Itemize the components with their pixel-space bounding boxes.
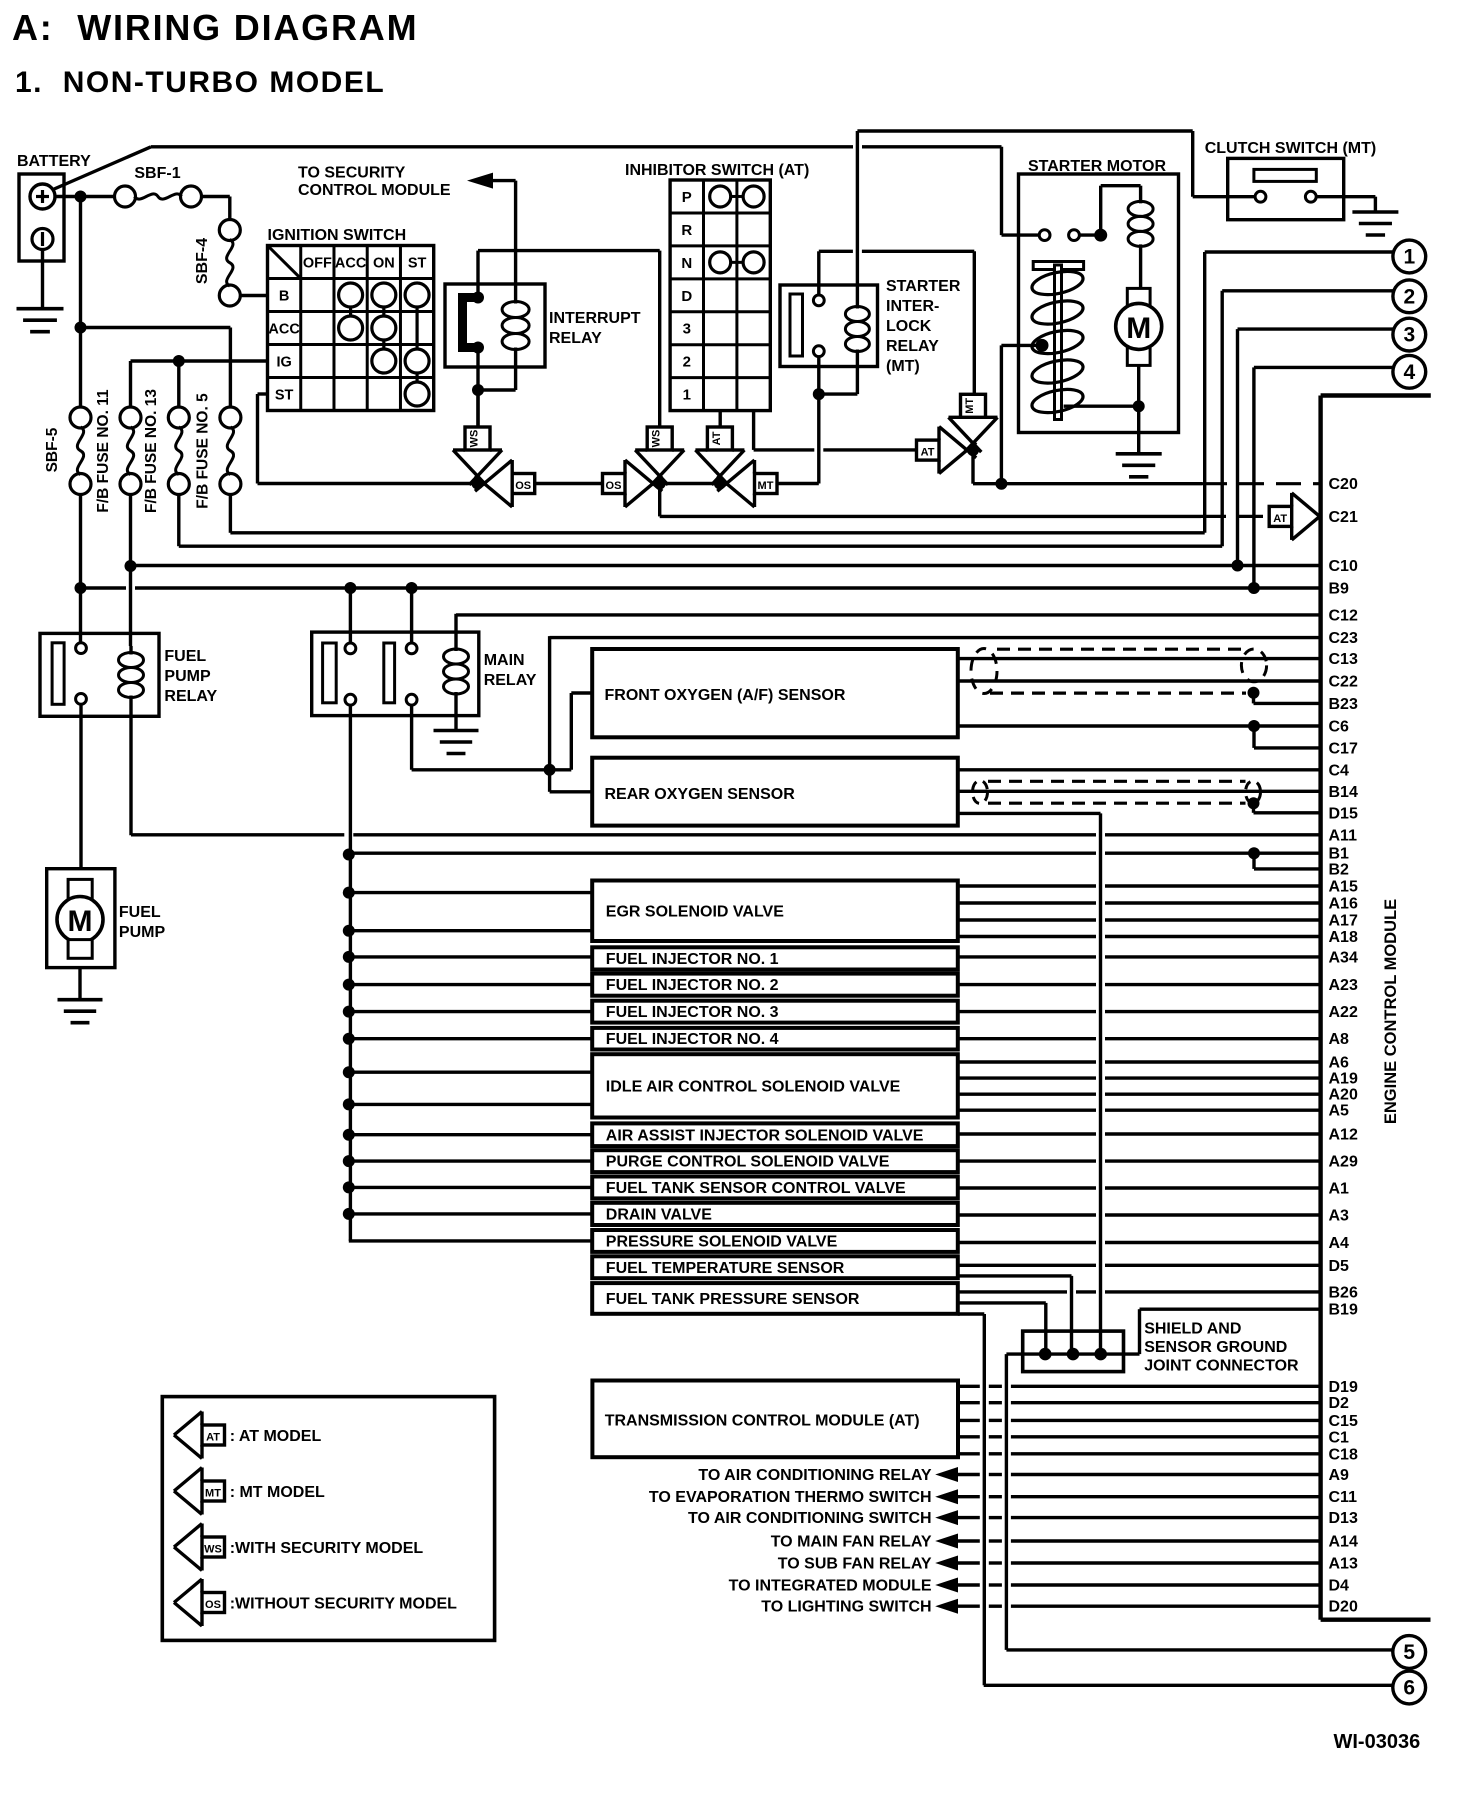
svg-text:INTERRUPT: INTERRUPT bbox=[549, 310, 641, 327]
svg-text:WI-03036: WI-03036 bbox=[1334, 1731, 1421, 1753]
svg-text:JOINT CONNECTOR: JOINT CONNECTOR bbox=[1144, 1358, 1299, 1375]
wire interlock bottoms join bbox=[817, 357, 820, 394]
wire C17 branch bbox=[1252, 726, 1255, 748]
svg-text:RELAY: RELAY bbox=[886, 338, 939, 355]
svg-text:TRANSMISSION CONTROL MODULE (A: TRANSMISSION CONTROL MODULE (AT) bbox=[605, 1413, 920, 1430]
svg-text:A20: A20 bbox=[1329, 1087, 1358, 1104]
wire battery minus to ground bbox=[41, 250, 44, 309]
svg-text:A3: A3 bbox=[1329, 1208, 1350, 1225]
junction J1 bbox=[472, 478, 484, 490]
wire battery down to SBF-5 bbox=[79, 197, 82, 408]
wire C6 bbox=[958, 724, 1321, 727]
fuel injector no.4 box bbox=[592, 1028, 958, 1050]
junction interrupt contact bottom bbox=[472, 342, 484, 354]
wire fuel tank pressure to joint connector bbox=[958, 1301, 1046, 1304]
main relay contact circles bbox=[345, 643, 356, 654]
junction interrupt contact top bbox=[472, 292, 484, 304]
junction plunger bbox=[1036, 339, 1049, 352]
pressure solenoid valve box bbox=[592, 1230, 958, 1252]
wire B2 branch bbox=[1252, 853, 1255, 869]
svg-text:D5: D5 bbox=[1329, 1258, 1350, 1275]
idle air control solenoid valve box bbox=[592, 1054, 958, 1117]
svg-text:6: 6 bbox=[1403, 1677, 1415, 1700]
junction shield drain rear bbox=[1248, 797, 1260, 809]
svg-text:B9: B9 bbox=[1329, 581, 1350, 598]
junction rear heater tap bbox=[544, 764, 556, 776]
shield (rear O2) bbox=[973, 781, 988, 804]
fuse F/B FUSE NO. 11 bbox=[120, 407, 141, 428]
wire WS feed J1 bbox=[476, 390, 479, 427]
wire main relay contact2 run bbox=[410, 705, 413, 770]
svg-text:1: 1 bbox=[1403, 246, 1415, 269]
battery bbox=[19, 174, 64, 261]
svg-text:AT: AT bbox=[206, 1432, 220, 1444]
legend arrow AT bbox=[174, 1412, 202, 1459]
svg-text:D4: D4 bbox=[1329, 1578, 1350, 1595]
fuel temperature sensor box bbox=[592, 1256, 958, 1278]
fuel injector no.2 box bbox=[592, 974, 958, 996]
node circled 2 bbox=[1393, 280, 1426, 313]
starter plunger T-bar bbox=[1033, 262, 1083, 270]
wire main relay coil to C12 bbox=[454, 614, 457, 640]
ground (main relay) bbox=[434, 729, 479, 733]
wire NO.11 to fuel pump relay coil bbox=[129, 495, 132, 647]
svg-text:ENGINE CONTROL MODULE: ENGINE CONTROL MODULE bbox=[1382, 899, 1400, 1124]
svg-text::WITH SECURITY MODEL: :WITH SECURITY MODEL bbox=[230, 1540, 424, 1557]
wire SBF-1 to SBF-4 bbox=[202, 195, 230, 198]
wire clutch to ground bbox=[1316, 195, 1375, 198]
fuel pump motor bbox=[68, 879, 92, 899]
wire main relay contacts up bbox=[349, 588, 352, 643]
wire J4 to C20 corner bbox=[971, 450, 974, 484]
interrupt relay contact bbox=[458, 293, 479, 352]
clutch switch box bbox=[1228, 158, 1344, 219]
svg-text:C15: C15 bbox=[1329, 1413, 1358, 1430]
svg-text:MT: MT bbox=[758, 480, 774, 492]
svg-text:SHIELD AND: SHIELD AND bbox=[1144, 1321, 1241, 1338]
svg-text:PRESSURE SOLENOID VALVE: PRESSURE SOLENOID VALVE bbox=[606, 1233, 838, 1250]
svg-text:CLUTCH SWITCH (MT): CLUTCH SWITCH (MT) bbox=[1205, 140, 1377, 157]
wire fuel temp sensor to joint connector bbox=[958, 1274, 1072, 1277]
wire to circled 5 bbox=[1006, 1648, 1392, 1651]
svg-text:R: R bbox=[681, 222, 692, 239]
wire inhibitor col2 to AT arrow bbox=[719, 411, 722, 428]
fuel pump relay coil bbox=[129, 646, 132, 655]
purge control solenoid valve box bbox=[592, 1150, 958, 1172]
inhibitor switch bbox=[670, 180, 770, 411]
ground (fuel pump) bbox=[58, 998, 103, 1002]
svg-text:D2: D2 bbox=[1329, 1395, 1350, 1412]
svg-text:A12: A12 bbox=[1329, 1127, 1358, 1144]
svg-text:: MT MODEL: : MT MODEL bbox=[230, 1484, 325, 1501]
svg-text:C1: C1 bbox=[1329, 1429, 1350, 1446]
junction battery plus node bbox=[75, 191, 87, 203]
wire bus circled2 (fuse NO.13) bbox=[177, 495, 180, 547]
svg-text:AT: AT bbox=[1273, 513, 1287, 525]
svg-text:OS: OS bbox=[515, 480, 531, 492]
wire C22 bbox=[958, 679, 1321, 682]
svg-text:DRAIN VALVE: DRAIN VALVE bbox=[606, 1206, 712, 1223]
wire rear shield drain bbox=[958, 812, 1101, 815]
svg-text:CONTROL MODULE: CONTROL MODULE bbox=[298, 182, 451, 199]
fuse F/B FUSE NO. 13 bbox=[168, 407, 189, 428]
wire rear heater feed bbox=[548, 770, 551, 792]
svg-text:C13: C13 bbox=[1329, 651, 1358, 668]
svg-text:B2: B2 bbox=[1329, 861, 1350, 878]
fuse SBF-4 bbox=[219, 220, 240, 241]
svg-text:FUEL INJECTOR NO. 4: FUEL INJECTOR NO. 4 bbox=[606, 1031, 779, 1048]
wire C23 to main relay circuit bbox=[550, 636, 1321, 639]
wire plunger bottom to motor bbox=[1064, 405, 1139, 408]
svg-text:2: 2 bbox=[683, 354, 691, 371]
svg-text:A4: A4 bbox=[1329, 1235, 1350, 1252]
wire ST bus y483 bbox=[258, 482, 819, 485]
svg-text::WITHOUT SECURITY MODEL: :WITHOUT SECURITY MODEL bbox=[230, 1596, 457, 1613]
svg-text:M: M bbox=[68, 905, 93, 938]
legend box bbox=[162, 1397, 494, 1641]
svg-text:WS: WS bbox=[651, 430, 663, 448]
svg-text:PURGE CONTROL SOLENOID VALVE: PURGE CONTROL SOLENOID VALVE bbox=[606, 1154, 890, 1171]
wire interrupt contact top bbox=[476, 251, 479, 298]
svg-text:OS: OS bbox=[205, 1599, 221, 1611]
starter interlock relay box bbox=[780, 285, 878, 367]
wire motor to ground junction bbox=[1137, 365, 1140, 432]
rear oxygen sensor box bbox=[592, 758, 958, 826]
arrow AT (J4) bbox=[939, 427, 967, 474]
fuse F/B FUSE NO. 5 bbox=[220, 407, 241, 428]
svg-text:OFF: OFF bbox=[303, 256, 332, 272]
air assist injector solenoid valve box bbox=[592, 1123, 958, 1146]
svg-text:FUEL: FUEL bbox=[119, 904, 161, 921]
interrupt relay box bbox=[445, 284, 545, 367]
svg-text:C22: C22 bbox=[1329, 674, 1358, 691]
wire bus B9 (SBF-5) bbox=[81, 586, 127, 589]
svg-text:C4: C4 bbox=[1329, 762, 1350, 779]
svg-text:D: D bbox=[681, 288, 692, 305]
svg-text:STARTER MOTOR: STARTER MOTOR bbox=[1028, 158, 1167, 175]
svg-text:LOCK: LOCK bbox=[886, 318, 932, 335]
svg-text:RELAY: RELAY bbox=[164, 688, 217, 705]
svg-text:AIR ASSIST INJECTOR SOLENOID V: AIR ASSIST INJECTOR SOLENOID VALVE bbox=[606, 1127, 924, 1144]
fuel tank sensor control valve box bbox=[592, 1177, 958, 1199]
svg-text:FUEL TEMPERATURE SENSOR: FUEL TEMPERATURE SENSOR bbox=[606, 1260, 845, 1277]
junction circled4-B9 bbox=[1248, 582, 1260, 594]
svg-text:WS: WS bbox=[469, 430, 481, 448]
junction J6 bbox=[995, 478, 1007, 490]
svg-text:FRONT OXYGEN (A/F) SENSOR: FRONT OXYGEN (A/F) SENSOR bbox=[605, 687, 846, 704]
junction starter motor bottom bbox=[1133, 400, 1145, 412]
wire C13 bbox=[958, 657, 1321, 660]
wire D15 branch bbox=[1252, 803, 1255, 813]
svg-text:(MT): (MT) bbox=[886, 358, 920, 375]
svg-text:RELAY: RELAY bbox=[549, 330, 602, 347]
svg-text:SENSOR GROUND: SENSOR GROUND bbox=[1144, 1339, 1287, 1356]
junction B1 on bus bbox=[343, 849, 355, 861]
svg-text:D13: D13 bbox=[1329, 1510, 1358, 1527]
wire main relay coil to ground bbox=[454, 703, 457, 731]
svg-text:A23: A23 bbox=[1329, 977, 1358, 994]
fuel injector no.3 box bbox=[592, 1001, 958, 1023]
svg-text:C10: C10 bbox=[1329, 558, 1358, 575]
svg-text:RELAY: RELAY bbox=[484, 672, 537, 689]
wire starter solenoid top bbox=[1099, 186, 1102, 235]
svg-text:FUEL TANK SENSOR CONTROL VALVE: FUEL TANK SENSOR CONTROL VALVE bbox=[606, 1180, 906, 1197]
engine control module outline bbox=[1318, 396, 1322, 1620]
wire interlock coil top to battery line bbox=[856, 131, 859, 302]
junction NO.11 bus bbox=[125, 560, 137, 572]
starter contact circles bbox=[1039, 230, 1050, 241]
main relay coil bbox=[454, 640, 457, 651]
starter solenoid coil bbox=[1139, 186, 1142, 204]
ignition switch bbox=[268, 246, 434, 411]
svg-text:A18: A18 bbox=[1329, 929, 1358, 946]
svg-text:SBF-1: SBF-1 bbox=[134, 165, 180, 182]
junction interrupt join bbox=[472, 384, 484, 396]
svg-text:ACC: ACC bbox=[268, 322, 300, 338]
svg-text:A13: A13 bbox=[1329, 1556, 1358, 1573]
svg-text:FUEL INJECTOR NO. 3: FUEL INJECTOR NO. 3 bbox=[606, 1004, 779, 1021]
svg-text:WS: WS bbox=[204, 1544, 222, 1556]
svg-text:REAR OXYGEN SENSOR: REAR OXYGEN SENSOR bbox=[605, 786, 796, 803]
svg-text:A1: A1 bbox=[1329, 1181, 1350, 1198]
arrow OS (J2) bbox=[625, 460, 653, 507]
starter motor M bbox=[1127, 288, 1150, 365]
svg-text:C6: C6 bbox=[1329, 719, 1350, 736]
junction interlock bottom bbox=[813, 388, 825, 400]
svg-text:TO INTEGRATED MODULE: TO INTEGRATED MODULE bbox=[729, 1578, 932, 1595]
svg-text:D15: D15 bbox=[1329, 805, 1358, 822]
svg-text:MAIN: MAIN bbox=[484, 652, 525, 669]
wires TCM to ECM bbox=[958, 1385, 980, 1388]
svg-text:A15: A15 bbox=[1329, 879, 1358, 896]
EGR solenoid valve box bbox=[592, 881, 958, 942]
arrow MT (J4) bbox=[949, 417, 998, 443]
starter motor box bbox=[1019, 174, 1179, 433]
svg-text:ST: ST bbox=[408, 256, 427, 272]
arrow WS (J2) bbox=[635, 450, 684, 476]
arrow WS (J1) bbox=[453, 450, 502, 476]
svg-text:B26: B26 bbox=[1329, 1284, 1358, 1301]
fuel pump relay contact circles bbox=[76, 643, 87, 654]
svg-text:SBF-5: SBF-5 bbox=[44, 427, 61, 472]
wire joint connector to B19 bbox=[1138, 1309, 1141, 1354]
arrow AT (J3) bbox=[695, 450, 744, 476]
starter plunger spring bbox=[1030, 267, 1085, 298]
node circled 3 bbox=[1393, 318, 1426, 351]
fuse SBF-5 bbox=[70, 407, 91, 428]
transmission control module box bbox=[592, 1381, 958, 1458]
svg-text:F/B FUSE NO. 13: F/B FUSE NO. 13 bbox=[143, 389, 160, 513]
wire joint connector bus bbox=[1006, 1352, 1139, 1355]
ground (battery) bbox=[17, 307, 64, 311]
wire battery feed bus y147 bbox=[151, 145, 853, 148]
wire battery plus to node bbox=[55, 195, 115, 198]
svg-text:A29: A29 bbox=[1329, 1154, 1358, 1171]
junction SBF-5 bus bbox=[75, 582, 87, 594]
wire B1 bbox=[349, 852, 1096, 855]
wire fuel pump relay coil to A11 bbox=[129, 704, 132, 835]
legend arrow WS bbox=[174, 1524, 202, 1571]
junction y327 bbox=[75, 322, 87, 334]
svg-text:A14: A14 bbox=[1329, 1534, 1358, 1551]
junction J2 bbox=[654, 478, 666, 490]
fuel injector no.1 box bbox=[592, 947, 958, 969]
junction C6-C17 bbox=[1248, 720, 1260, 732]
svg-text:FUEL INJECTOR NO. 1: FUEL INJECTOR NO. 1 bbox=[606, 951, 779, 968]
wire interlock contact top bbox=[817, 251, 820, 295]
wires valve boxes to ECM bbox=[958, 884, 1096, 887]
svg-text:SBF-4: SBF-4 bbox=[194, 238, 211, 284]
svg-text:C23: C23 bbox=[1329, 630, 1358, 647]
svg-text:INHIBITOR SWITCH (AT): INHIBITOR SWITCH (AT) bbox=[625, 162, 809, 179]
svg-text:P: P bbox=[682, 189, 692, 206]
wire ignition ST row to ST bus bbox=[258, 392, 268, 395]
svg-text:FUEL: FUEL bbox=[164, 648, 206, 665]
svg-text:TO AIR CONDITIONING SWITCH: TO AIR CONDITIONING SWITCH bbox=[688, 1510, 932, 1527]
wire starter contact to coil bbox=[1080, 233, 1101, 236]
svg-text:M: M bbox=[1126, 312, 1151, 345]
node circled 6 bbox=[1393, 1671, 1426, 1704]
svg-text:A34: A34 bbox=[1329, 949, 1358, 966]
wire NO.13 drop bbox=[177, 361, 180, 407]
svg-text:ST: ST bbox=[275, 388, 294, 404]
fuse SBF-1 bbox=[115, 186, 136, 207]
svg-text:A8: A8 bbox=[1329, 1031, 1350, 1048]
wire bus C10 (fuse NO.11) bbox=[131, 564, 1321, 567]
svg-text:A22: A22 bbox=[1329, 1004, 1358, 1021]
arrow OS (J1) bbox=[484, 460, 512, 507]
junction starter solenoid bbox=[1094, 229, 1107, 242]
interlock contact bar bbox=[790, 294, 803, 356]
svg-text:IGNITION SWITCH: IGNITION SWITCH bbox=[268, 227, 407, 244]
svg-text:TO MAIN FAN RELAY: TO MAIN FAN RELAY bbox=[771, 1534, 932, 1551]
svg-text:C11: C11 bbox=[1329, 1489, 1358, 1506]
node circled 4 bbox=[1393, 355, 1426, 388]
svg-text:FUEL INJECTOR NO. 2: FUEL INJECTOR NO. 2 bbox=[606, 977, 779, 994]
svg-text:2: 2 bbox=[1403, 285, 1415, 308]
svg-text:A16: A16 bbox=[1329, 896, 1358, 913]
interrupt relay coil bbox=[514, 296, 517, 304]
wire fuel pump relay contact out bbox=[79, 704, 82, 868]
wire battery line to clutch bbox=[1191, 131, 1194, 197]
svg-text:A17: A17 bbox=[1329, 913, 1358, 930]
svg-text:B1: B1 bbox=[1329, 846, 1350, 863]
wire IG row feed bbox=[131, 359, 268, 362]
wire plunger pickoff bbox=[1001, 344, 1037, 347]
svg-text:C21: C21 bbox=[1329, 509, 1358, 526]
svg-text:EGR SOLENOID VALVE: EGR SOLENOID VALVE bbox=[606, 903, 784, 920]
legend arrow OS bbox=[174, 1579, 202, 1626]
svg-text:TO LIGHTING SWITCH: TO LIGHTING SWITCH bbox=[761, 1599, 931, 1616]
svg-text:4: 4 bbox=[1403, 361, 1415, 384]
wire fuel tank pressure to circled 6 bbox=[958, 1312, 985, 1315]
wire main relay contact1 bus bbox=[349, 705, 352, 1241]
junction J3 bbox=[714, 478, 726, 490]
clutch switch plate bbox=[1254, 169, 1316, 181]
svg-text:TO SECURITY: TO SECURITY bbox=[298, 165, 406, 182]
arrowhead to security module bbox=[467, 173, 493, 189]
wire MT feed J4 bbox=[973, 251, 976, 394]
to-device lines bbox=[935, 1467, 958, 1482]
wire B14 bbox=[958, 790, 1321, 793]
interlock coil bbox=[856, 302, 859, 309]
clutch contact circles bbox=[1255, 191, 1266, 202]
svg-text:C12: C12 bbox=[1329, 607, 1358, 624]
wire battery diagonal up bbox=[53, 147, 151, 190]
svg-text:A: WIRING DIAGRAM: A: WIRING DIAGRAM bbox=[12, 7, 418, 48]
wire to circled 3 bbox=[1238, 327, 1395, 330]
shield joint connector box bbox=[1023, 1331, 1124, 1372]
ground (clutch switch) bbox=[1352, 210, 1398, 214]
wire to security control module bbox=[492, 179, 516, 182]
junction circled3-C10 bbox=[1232, 560, 1244, 572]
svg-text:PUMP: PUMP bbox=[164, 668, 211, 685]
junction B1-B2 bbox=[1248, 847, 1260, 859]
svg-text:IG: IG bbox=[276, 355, 291, 371]
svg-text:B: B bbox=[279, 289, 289, 305]
svg-text:A9: A9 bbox=[1329, 1467, 1350, 1484]
wire SBF-5 to fuel pump relay contact bbox=[79, 495, 82, 644]
svg-text:D20: D20 bbox=[1329, 1599, 1358, 1616]
junction main relay contacts on B9 bus bbox=[344, 582, 356, 594]
legend arrow MT bbox=[174, 1468, 202, 1515]
wire to circled 2 bbox=[1222, 289, 1394, 292]
fuel pump relay contact bar bbox=[52, 643, 64, 705]
wire solenoid to motor bbox=[1139, 262, 1142, 290]
wire fuel pump to ground bbox=[78, 968, 81, 1000]
fuel pump relay box bbox=[40, 633, 159, 716]
svg-text:D19: D19 bbox=[1329, 1379, 1358, 1396]
svg-text:ON: ON bbox=[373, 256, 395, 272]
svg-text:B23: B23 bbox=[1329, 696, 1358, 713]
svg-text:3: 3 bbox=[683, 321, 691, 338]
node circled 1 bbox=[1393, 240, 1426, 273]
front oxygen sensor box bbox=[592, 649, 958, 737]
wire inhibitor col3 to AT(J4) bbox=[752, 411, 755, 450]
svg-text:STARTER: STARTER bbox=[886, 278, 961, 295]
wires bus to valve boxes bbox=[349, 891, 592, 894]
svg-text:MT: MT bbox=[205, 1488, 221, 1500]
main relay contact bars bbox=[323, 643, 337, 703]
svg-text:TO AIR CONDITIONING RELAY: TO AIR CONDITIONING RELAY bbox=[698, 1467, 932, 1484]
arrow AT (C21) bbox=[1292, 493, 1320, 540]
junctions joint connector bbox=[1039, 1348, 1052, 1361]
svg-text:1: 1 bbox=[683, 387, 691, 404]
junction IG-NO.13 bbox=[173, 355, 185, 367]
svg-text:BATTERY: BATTERY bbox=[17, 153, 91, 170]
svg-text:N: N bbox=[681, 255, 692, 272]
wire to circled 6 bbox=[984, 1684, 1393, 1687]
wire WS feed J2 bbox=[658, 251, 661, 428]
svg-text:AT: AT bbox=[921, 447, 935, 459]
svg-text:C17: C17 bbox=[1329, 740, 1358, 757]
main relay box bbox=[312, 632, 479, 716]
svg-text:1. NON-TURBO MODEL: 1. NON-TURBO MODEL bbox=[15, 66, 385, 99]
wire interlock to MT(J3) bbox=[817, 394, 820, 483]
svg-text:TO EVAPORATION THERMO SWITCH: TO EVAPORATION THERMO SWITCH bbox=[649, 1489, 932, 1506]
junction shield drain front bbox=[1248, 687, 1260, 699]
fuel tank pressure sensor box bbox=[592, 1283, 958, 1314]
svg-text:A19: A19 bbox=[1329, 1071, 1358, 1088]
ground (starter motor) bbox=[1116, 452, 1162, 456]
wire bus circled1 (fuse NO.5) bbox=[229, 495, 232, 533]
svg-text:C18: C18 bbox=[1329, 1446, 1358, 1463]
drain valve box bbox=[592, 1203, 958, 1225]
wire starter ground bbox=[1137, 433, 1140, 454]
svg-text:PUMP: PUMP bbox=[119, 924, 166, 941]
wire C20 line bbox=[1001, 482, 1202, 485]
svg-text:5: 5 bbox=[1403, 1641, 1415, 1664]
